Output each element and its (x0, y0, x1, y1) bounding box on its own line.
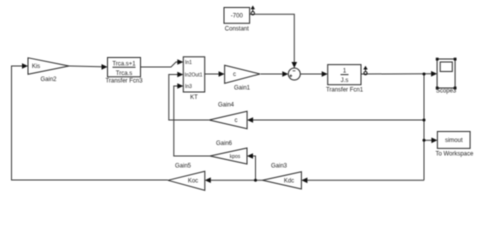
svg-text:simout: simout (445, 138, 463, 144)
svg-text:J.s: J.s (341, 78, 349, 84)
svg-text:KT: KT (190, 95, 198, 101)
svg-text:Gain6: Gain6 (216, 141, 233, 147)
svg-text:In3: In3 (185, 84, 192, 90)
svg-text:Trca.s: Trca.s (116, 71, 132, 77)
svg-text:-700: -700 (231, 14, 244, 20)
svg-text:Gain1: Gain1 (234, 86, 251, 92)
svg-text:Trca.s+1: Trca.s+1 (112, 61, 136, 67)
svg-text:Gain2: Gain2 (40, 77, 57, 83)
svg-text:Gain4: Gain4 (218, 103, 235, 109)
svg-text:Kis: Kis (32, 64, 40, 70)
svg-text:Kdc: Kdc (284, 178, 294, 184)
svg-text:Transfer Fcn1: Transfer Fcn1 (326, 88, 364, 94)
svg-text:kpos: kpos (230, 154, 241, 160)
svg-text:Transfer Fcn3: Transfer Fcn3 (105, 79, 143, 85)
svg-text:In2Out1: In2Out1 (185, 73, 203, 79)
svg-text:Gain5: Gain5 (175, 164, 192, 170)
svg-text:In1: In1 (185, 60, 192, 66)
svg-text:c: c (235, 118, 238, 124)
svg-text:Scope3: Scope3 (436, 89, 457, 95)
svg-text:Constant: Constant (225, 26, 249, 32)
svg-text:Koc: Koc (188, 178, 198, 184)
svg-text:Gain3: Gain3 (271, 164, 288, 170)
svg-text:c: c (233, 72, 236, 78)
svg-text:To Workspace: To Workspace (435, 151, 474, 157)
